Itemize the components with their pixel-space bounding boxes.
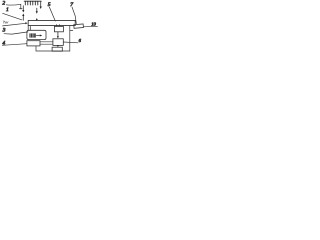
detector box (7) slanted <box>74 24 84 28</box>
output wire to 10 <box>83 25 97 28</box>
svg-text:4: 4 <box>2 41 5 47</box>
hv text <box>4 21 5 24</box>
beam up arrow A <box>22 16 24 21</box>
svg-text:3: 3 <box>2 28 6 34</box>
vertical wire from band <box>69 26 71 51</box>
leader from 7 <box>72 7 76 24</box>
arrow photodiode to box2 <box>57 32 59 37</box>
tick on vertical wire <box>70 30 73 32</box>
leader from 1 <box>3 13 22 20</box>
photodiode box (5) <box>54 26 63 31</box>
box3 <box>52 47 62 51</box>
svg-text:10: 10 <box>91 21 96 26</box>
leader from 3 <box>4 32 28 34</box>
comb teeth <box>25 1 38 5</box>
waveguide band <box>28 20 75 25</box>
dark hatched element <box>29 33 35 37</box>
leader from 2 <box>6 4 20 8</box>
leader from 4 <box>2 44 27 46</box>
amplifier box2 <box>53 39 63 46</box>
pedestal ticks <box>28 26 30 30</box>
comb electrode top line <box>24 0 41 2</box>
terminal wires <box>40 42 53 44</box>
hatch slits <box>31 34 34 38</box>
svg-text:6: 6 <box>79 38 82 43</box>
svg-text:1: 1 <box>6 7 9 13</box>
beam down arrow A <box>22 6 24 11</box>
supply box5 <box>27 41 40 46</box>
contact ticks under band <box>56 25 59 27</box>
svg-text:2: 2 <box>2 1 5 7</box>
leader from 5 <box>49 7 55 21</box>
comb end down arrow <box>40 1 42 7</box>
input beam arrow <box>3 23 26 26</box>
arrow box2 to box3 <box>57 44 59 46</box>
return wire <box>36 46 70 51</box>
wire from box2 to node 6 <box>63 41 78 44</box>
beam down arrow B <box>36 8 38 12</box>
arrowhead of leader 2 <box>20 8 22 10</box>
housing rounded box <box>27 30 46 39</box>
svg-text:7: 7 <box>70 2 73 8</box>
beam up arrow B <box>36 19 38 21</box>
arrow in housing <box>36 35 40 37</box>
